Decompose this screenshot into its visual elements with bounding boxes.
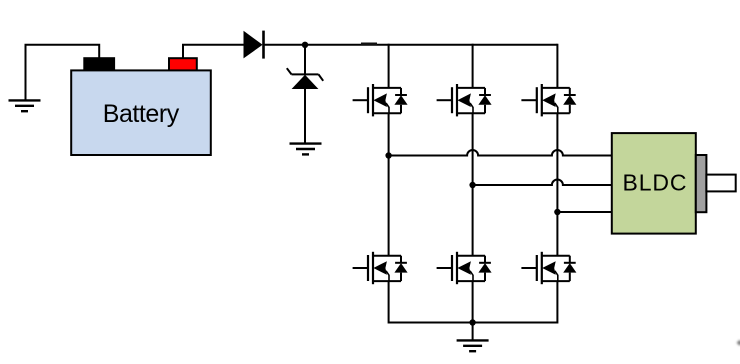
svg-text:BLDC: BLDC [623,169,687,195]
svg-text:Battery: Battery [103,100,180,128]
